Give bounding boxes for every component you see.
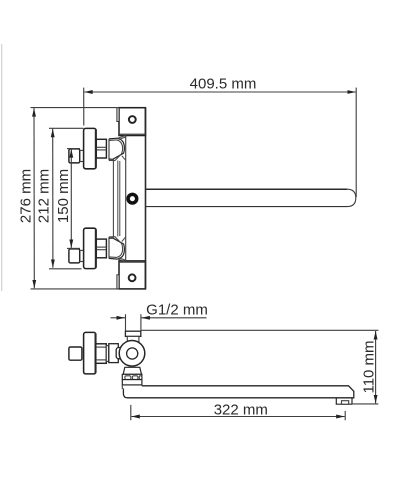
top fitting: dome base line <box>108 139 110 161</box>
top fitting: dome outer contour <box>109 138 124 159</box>
side fitting: connector <box>106 346 109 362</box>
top fitting: wall nub <box>69 149 80 163</box>
top fitting: dome inner contour <box>109 140 123 161</box>
dim 150 mm: dimension line with arrows <box>70 149 72 248</box>
top fitting: nut facet lines <box>96 146 106 148</box>
spout (side view): nozzle <box>336 398 352 404</box>
valve: housing left block <box>109 344 119 363</box>
bottom fitting: dome base line <box>108 237 110 259</box>
valve: top inlet cap <box>125 331 140 336</box>
bottom fitting: nut facet lines <box>96 246 106 248</box>
bottom fitting: top chamfer edge <box>122 237 126 242</box>
dim 110 mm: bottom extension line <box>353 403 379 405</box>
top fitting: nub neck lines <box>80 149 84 151</box>
dim 322 mm: right extension line <box>344 411 346 420</box>
side fitting: nut facet lines <box>96 346 107 348</box>
dim 322 mm: dimension line with arrows <box>131 416 344 418</box>
dim 110 mm: dimension line with arrows <box>375 331 377 403</box>
valve: lower nut band <box>122 374 142 379</box>
wall plate: top notch strip <box>117 108 119 122</box>
dim G1/2: right extension line <box>140 314 142 330</box>
svg-text:G1/2 mm: G1/2 mm <box>146 302 208 319</box>
diverter knob (black donut) <box>128 194 137 203</box>
svg-text:212 mm: 212 mm <box>35 169 52 223</box>
bottom fitting: escutcheon <box>84 228 97 268</box>
bottom fitting: dome inner contour <box>109 237 123 258</box>
top fitting: bottom chamfer edge <box>122 156 126 161</box>
dim 212 mm: bottom extension line <box>49 268 82 270</box>
dim 276 mm: top extension line <box>31 107 118 109</box>
page edge artifact (faint) <box>1 44 3 291</box>
svg-text:276 mm: 276 mm <box>18 169 35 223</box>
top fitting: nut <box>96 139 106 158</box>
svg-text:322 mm: 322 mm <box>214 401 268 418</box>
valve: inlet step <box>127 336 139 342</box>
dim G1/2: right arrow segment <box>141 317 206 319</box>
top fitting: top chamfer diagonals <box>117 135 126 138</box>
valve: inner circle <box>127 348 138 359</box>
side fitting: wall nub <box>69 347 82 360</box>
bottom fitting: nub neck lines <box>80 249 84 251</box>
dim 276 mm: bottom extension line <box>31 288 119 290</box>
top fitting: escutcheon right edge thick <box>95 129 97 168</box>
valve: lower collar band <box>122 380 142 385</box>
dim 409.5 mm: right extension line <box>355 88 357 197</box>
dim 212 mm: dimension line with arrows <box>52 129 54 268</box>
side fitting: escutcheon right edge thick <box>94 333 96 373</box>
valve: main circle <box>119 341 145 367</box>
dim G1/2: left extension line <box>125 314 127 330</box>
dim 150 mm: bottom extension tick <box>67 247 80 249</box>
dim G1/2: left arrow segment <box>111 317 126 319</box>
dim 322 mm: left extension line <box>130 405 132 420</box>
svg-text:110 mm: 110 mm <box>360 340 377 393</box>
spout (front view): top edge <box>146 188 348 190</box>
wall plate: top tab <box>119 108 145 136</box>
wall plate: bottom notch strip <box>117 275 119 289</box>
svg-text:409.5 mm: 409.5 mm <box>190 75 257 92</box>
dim 276 mm: dimension line with arrows <box>33 108 35 288</box>
spout (side view): body outline <box>123 386 353 398</box>
dim 110 mm: top extension line <box>142 329 379 331</box>
bottom fitting: dome outer contour <box>109 238 124 259</box>
side fitting: nut <box>96 344 107 364</box>
spout (front view): rounded end cap <box>347 189 356 206</box>
valve: lower neck band <box>123 367 141 374</box>
svg-text:150 mm: 150 mm <box>55 169 72 223</box>
top fitting: escutcheon <box>84 128 97 168</box>
valve: lower nut facets <box>125 376 131 380</box>
dim 409.5 mm: left extension line <box>83 88 85 126</box>
wall plate: bottom tab screw hole <box>129 274 136 281</box>
body column: inner edge line <box>125 136 127 261</box>
dim 212 mm: top extension line <box>49 127 84 129</box>
wall plate: bottom tab <box>119 261 145 289</box>
wall plate: right edge <box>145 108 147 289</box>
valve: collar-to-spout sides <box>121 385 123 389</box>
wall plate: tab bottom inner line <box>119 133 145 135</box>
spout (side view): aerator <box>342 401 349 405</box>
bottom fitting: wall nub <box>69 249 80 263</box>
wall plate: top tab screw hole <box>129 116 136 123</box>
bottom fitting: escutcheon right edge thick <box>95 229 97 268</box>
bottom fitting: nut <box>96 239 106 258</box>
valve: left ear <box>116 348 122 359</box>
bottom fitting: bottom chamfer diagonals <box>117 259 126 262</box>
side fitting: escutcheon <box>84 332 96 374</box>
wall plate: bottom tab top inner line <box>119 261 145 263</box>
spout (front view): bottom edge <box>146 206 348 208</box>
body column: left contour lines <box>112 160 114 238</box>
dim 409.5 mm: dimension line with arrows <box>84 91 356 93</box>
dim 150 mm: top extension tick <box>67 148 80 150</box>
